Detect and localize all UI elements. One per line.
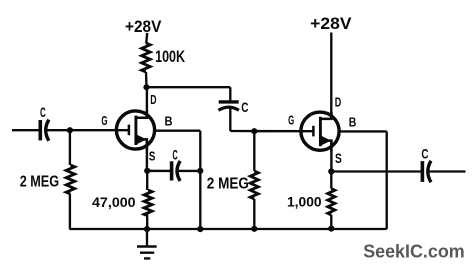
svg-text:G: G (101, 113, 107, 128)
svg-text:1,000: 1,000 (287, 194, 322, 210)
svg-text:B: B (165, 113, 173, 128)
svg-text:+28V: +28V (310, 14, 352, 33)
svg-text:D: D (335, 94, 342, 109)
svg-text:S: S (149, 149, 156, 164)
svg-text:C: C (172, 147, 178, 162)
svg-text:100K: 100K (155, 47, 186, 66)
svg-text:D: D (150, 92, 156, 107)
svg-text:B: B (349, 114, 357, 129)
svg-text:C: C (421, 146, 428, 162)
svg-text:C: C (241, 99, 248, 115)
svg-text:+28V: +28V (125, 17, 162, 36)
svg-text:S: S (335, 151, 342, 166)
svg-text:2 MEG: 2 MEG (207, 176, 249, 193)
svg-text:C: C (40, 104, 46, 120)
svg-text:2 MEG: 2 MEG (20, 174, 59, 191)
svg-text:G: G (288, 112, 294, 127)
svg-text:47,000: 47,000 (92, 194, 136, 210)
svg-text:SeekIC.com: SeekIC.com (363, 240, 465, 261)
